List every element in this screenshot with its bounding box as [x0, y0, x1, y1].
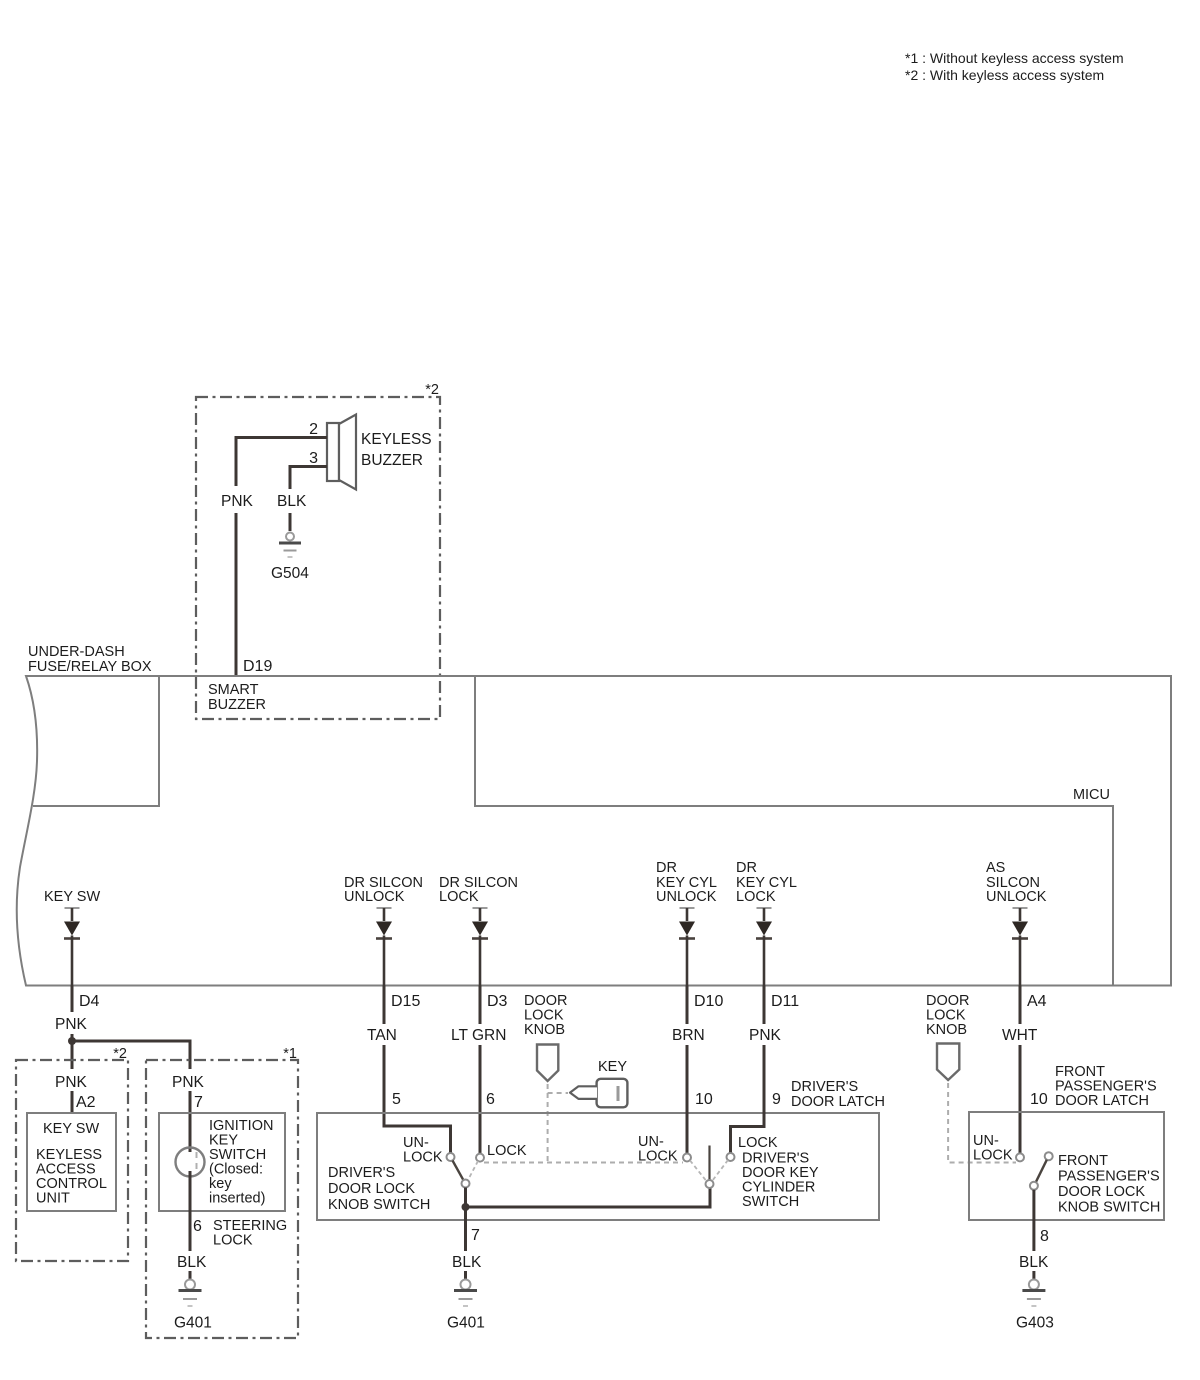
wire passenger pivot down — [1032, 1190, 1035, 1251]
output pin D15 (diode arrow) — [376, 908, 392, 986]
svg-text:5: 5 — [392, 1091, 401, 1108]
inner partition top-left — [33, 676, 159, 806]
wire BLK to G401 — [464, 1271, 467, 1279]
key symbol — [570, 1079, 627, 1108]
svg-text:PNK: PNK — [55, 1074, 88, 1091]
svg-text:10: 10 — [1030, 1091, 1048, 1108]
svg-text:BRN: BRN — [672, 1027, 705, 1044]
door lock knob label (passenger) — [926, 993, 970, 1038]
svg-text:A2: A2 — [76, 1094, 96, 1111]
svg-text:DOOR LOCK: DOOR LOCK — [1058, 1184, 1145, 1200]
wire D10 down — [686, 986, 689, 1025]
pin label DR SILCON UNLOCK — [344, 875, 423, 905]
svg-text:G401: G401 — [447, 1315, 485, 1332]
keyless buzzer speaker symbol — [327, 415, 432, 490]
wire ignition switch down — [189, 1171, 192, 1251]
steering lock label — [213, 1218, 287, 1249]
junction node — [68, 1037, 76, 1045]
wire PNK to cylinder lock contact — [731, 1045, 765, 1153]
svg-text:KNOB: KNOB — [926, 1022, 967, 1038]
cylinder switch blade dashed to lock — [713, 1160, 729, 1181]
svg-text:*1: *1 — [283, 1046, 297, 1062]
cylinder switch unlock contact — [683, 1154, 691, 1162]
driver's door lock knob switch label — [328, 1165, 430, 1213]
door lock knob label (driver) — [524, 993, 568, 1038]
knob switch blade dashed alt — [468, 1161, 478, 1180]
driver's door key cylinder switch label — [742, 1151, 819, 1211]
passenger switch unlock contact — [1016, 1153, 1024, 1161]
svg-text:LOCK: LOCK — [738, 1135, 778, 1151]
wire buzzer pin3 to BLK — [290, 467, 327, 490]
svg-text:AS: AS — [986, 860, 1005, 876]
svg-text:D15: D15 — [391, 993, 420, 1010]
svg-text:UNDER-DASH: UNDER-DASH — [28, 644, 125, 660]
svg-text:*2: *2 — [113, 1046, 127, 1062]
svg-text:G401: G401 — [174, 1315, 212, 1332]
svg-text:inserted): inserted) — [209, 1191, 265, 1207]
mechanical link knob (driver) dashed — [547, 1084, 549, 1163]
cylinder switch pivot contact — [706, 1180, 714, 1188]
wire branch to ignition key switch — [72, 1041, 190, 1069]
output pin KEY SW (diode arrow) — [64, 908, 80, 986]
passenger switch blade — [1036, 1160, 1047, 1182]
cylinder switch blade neutral — [708, 1146, 710, 1180]
wire buzzer pin2 to PNK — [236, 438, 327, 487]
wire PNK to pin 7 — [189, 1091, 192, 1152]
svg-text:A4: A4 — [1027, 993, 1047, 1010]
svg-text:PASSENGER'S: PASSENGER'S — [1058, 1169, 1160, 1185]
svg-text:DR: DR — [656, 860, 677, 876]
wire PNK to junction — [71, 1034, 74, 1041]
svg-text:BUZZER: BUZZER — [208, 697, 266, 713]
wire common to cylinder switch pivot — [466, 1188, 711, 1207]
output pin D10 (diode arrow) — [679, 908, 695, 986]
wire pivot to junction — [464, 1188, 467, 1208]
mechanical link to cylinder switch dashed — [484, 1162, 683, 1164]
svg-text:DOOR LOCK: DOOR LOCK — [328, 1181, 415, 1197]
pin label AS SILCON UNLOCK — [986, 860, 1047, 905]
svg-text:D19: D19 — [243, 658, 272, 675]
svg-text:D11: D11 — [771, 993, 799, 1010]
output pin D3 (diode arrow) — [472, 908, 488, 986]
knob switch unlock contact — [447, 1153, 455, 1161]
svg-text:LOCK: LOCK — [736, 889, 776, 905]
keyless access control unit box — [27, 1113, 116, 1211]
svg-text:BLK: BLK — [1019, 1254, 1049, 1271]
svg-text:UNLOCK: UNLOCK — [986, 889, 1047, 905]
driver's door latch box — [317, 1113, 879, 1220]
svg-text:8: 8 — [1040, 1228, 1049, 1245]
front passenger's door latch box — [969, 1112, 1164, 1220]
svg-text:LOCK: LOCK — [638, 1149, 678, 1165]
wire D15 down — [383, 986, 386, 1025]
svg-text:LOCK: LOCK — [973, 1148, 1013, 1164]
svg-text:3: 3 — [309, 450, 318, 467]
svg-text:UNLOCK: UNLOCK — [656, 889, 717, 905]
svg-text:PNK: PNK — [172, 1074, 205, 1091]
wire LT GRN to lock contact — [479, 1045, 482, 1154]
svg-text:BUZZER: BUZZER — [361, 452, 423, 469]
svg-text:2: 2 — [309, 421, 318, 438]
MICU partition — [475, 676, 1113, 986]
ground G401 (driver latch) — [447, 1280, 485, 1332]
svg-text:*1 : Without keyless access sy: *1 : Without keyless access system — [905, 50, 1124, 66]
wire BLK down to ground — [289, 513, 292, 531]
svg-text:BLK: BLK — [177, 1254, 207, 1271]
knob switch pivot contact — [462, 1180, 470, 1188]
svg-text:TAN: TAN — [367, 1027, 397, 1044]
ground G403 — [1016, 1280, 1054, 1332]
passenger switch lock contact — [1045, 1152, 1053, 1160]
svg-text:DR: DR — [736, 860, 757, 876]
wire BLK to G403 — [1032, 1271, 1035, 1279]
svg-text:KNOB SWITCH: KNOB SWITCH — [328, 1197, 430, 1213]
passenger switch UN-LOCK label — [973, 1133, 1013, 1164]
svg-text:FRONT: FRONT — [1058, 1153, 1108, 1169]
output pin D11 (diode arrow) — [756, 908, 772, 986]
wire BRN to cylinder unlock contact — [686, 1045, 689, 1154]
wire PNK down to D19 — [235, 513, 238, 676]
knob switch UN-LOCK label — [403, 1135, 443, 1166]
svg-text:BLK: BLK — [277, 493, 307, 510]
svg-text:KNOB: KNOB — [524, 1022, 565, 1038]
pin label DR KEY CYL LOCK — [736, 860, 797, 905]
output pin A4 (diode arrow) — [1012, 908, 1028, 986]
svg-text:DOOR LATCH: DOOR LATCH — [791, 1094, 885, 1110]
ignition key switch box — [159, 1113, 285, 1211]
wire TAN to unlock contact — [384, 1045, 451, 1153]
wire PNK to A2 — [71, 1091, 74, 1113]
mechanical link key dashed — [548, 1092, 568, 1094]
svg-text:D3: D3 — [487, 993, 508, 1010]
svg-text:DOOR LATCH: DOOR LATCH — [1055, 1093, 1149, 1109]
wire D11 down — [763, 986, 766, 1025]
svg-text:LT GRN: LT GRN — [451, 1027, 506, 1044]
svg-text:KEY SW: KEY SW — [44, 889, 100, 905]
wire A4 down — [1019, 986, 1022, 1025]
wire junction down to keyless unit — [71, 1041, 74, 1069]
svg-text:SWITCH: SWITCH — [742, 1194, 799, 1210]
svg-text:FUSE/RELAY BOX: FUSE/RELAY BOX — [28, 659, 152, 675]
svg-text:PNK: PNK — [55, 1016, 88, 1033]
svg-text:G504: G504 — [271, 565, 309, 582]
cylinder switch blade dashed to unlock — [690, 1161, 706, 1181]
svg-text:6: 6 — [486, 1091, 495, 1108]
mechanical link knob (passenger) dashed — [948, 1083, 1016, 1163]
under-dash fuse/relay box outline with torn left edge — [17, 676, 1171, 986]
dashed option box *2 keyless access control unit — [16, 1046, 128, 1261]
svg-text:MICU: MICU — [1073, 787, 1110, 803]
svg-text:D10: D10 — [694, 993, 723, 1010]
pin label DR SILCON LOCK — [439, 875, 518, 905]
svg-text:D4: D4 — [79, 993, 100, 1010]
svg-text:DRIVER'S: DRIVER'S — [328, 1165, 395, 1181]
wire D4 down — [71, 986, 74, 1013]
svg-text:PNK: PNK — [749, 1027, 782, 1044]
ground G504 — [271, 533, 309, 583]
door lock knob symbol (passenger) — [937, 1044, 959, 1081]
svg-text:UNLOCK: UNLOCK — [344, 889, 405, 905]
ground G401 (steering lock) — [174, 1280, 212, 1332]
wire BLK to ground G401 — [189, 1271, 192, 1279]
svg-text:7: 7 — [471, 1227, 480, 1244]
svg-text:PNK: PNK — [221, 493, 254, 510]
note legend *1 *2 — [905, 50, 1124, 83]
ignition key switch contact circle — [176, 1148, 205, 1177]
svg-text:*2 : With keyless access syste: *2 : With keyless access system — [905, 67, 1104, 83]
svg-text:BLK: BLK — [452, 1254, 482, 1271]
cylinder switch UN-LOCK label — [638, 1134, 678, 1165]
pin label DR KEY CYL UNLOCK — [656, 860, 717, 905]
svg-text:LOCK: LOCK — [213, 1233, 253, 1249]
under-dash fuse/relay box label — [28, 644, 152, 675]
svg-text:10: 10 — [695, 1091, 713, 1108]
svg-text:WHT: WHT — [1002, 1027, 1038, 1044]
wire D3 down — [479, 986, 482, 1025]
passenger switch pivot contact — [1030, 1182, 1038, 1190]
svg-text:DRIVER'S: DRIVER'S — [791, 1079, 858, 1095]
svg-text:KNOB SWITCH: KNOB SWITCH — [1058, 1200, 1160, 1216]
driver's door latch label — [791, 1079, 885, 1110]
svg-text:LOCK: LOCK — [487, 1143, 527, 1159]
wire common down to ground — [464, 1207, 467, 1251]
smart buzzer label — [208, 682, 266, 713]
svg-text:UNIT: UNIT — [36, 1191, 70, 1207]
svg-text:KEY: KEY — [598, 1059, 627, 1075]
wire WHT to unlock contact — [1019, 1045, 1022, 1153]
svg-text:9: 9 — [772, 1091, 781, 1108]
svg-text:KEYLESS: KEYLESS — [361, 431, 432, 448]
cylinder switch lock contact — [727, 1153, 735, 1161]
dashed option box *1 ignition key switch — [146, 1046, 298, 1338]
svg-text:LOCK: LOCK — [439, 889, 479, 905]
door lock knob symbol (driver) — [537, 1045, 558, 1082]
knob switch lock contact — [476, 1154, 484, 1162]
svg-text:6: 6 — [193, 1218, 202, 1235]
svg-text:SMART: SMART — [208, 682, 259, 698]
svg-text:7: 7 — [194, 1094, 203, 1111]
svg-text:KEY SW: KEY SW — [43, 1121, 99, 1137]
dashed option box *2 keyless buzzer — [196, 382, 440, 719]
svg-text:*2: *2 — [425, 382, 439, 398]
knob switch blade — [453, 1161, 464, 1181]
front passenger's door lock knob switch label — [1058, 1153, 1160, 1216]
front passenger's door latch label — [1055, 1064, 1157, 1109]
svg-text:LOCK: LOCK — [403, 1150, 443, 1166]
junction node (latch common) — [462, 1203, 470, 1211]
svg-text:G403: G403 — [1016, 1315, 1054, 1332]
